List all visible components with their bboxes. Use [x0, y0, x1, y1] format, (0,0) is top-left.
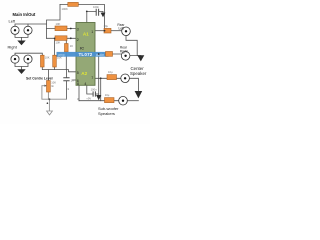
svg-text:100K: 100K [62, 7, 68, 11]
svg-text:3: 3 [77, 28, 79, 32]
wire V+ rail [87, 11, 103, 22]
svg-text:10µ: 10µ [105, 93, 110, 97]
svg-text:Main In/Out: Main In/Out [13, 12, 36, 17]
ground G4 rear jacks arrow [137, 55, 144, 61]
wire row1 to pin3 [28, 24, 76, 29]
svg-text:IC: IC [80, 46, 84, 51]
resistor R5 vertical left [41, 55, 45, 67]
wire row2 to pin2 [47, 37, 77, 39]
wire cap RL to jack [111, 30, 122, 32]
potentiometer wiper loop [42, 86, 67, 111]
wire left input top rail [15, 24, 47, 26]
junction dots [47, 11, 106, 104]
wire right pair ground [15, 63, 28, 69]
wire res4 stub [65, 38, 67, 69]
wire top feedback rail [60, 5, 105, 31]
ground G5 center-sub arrow [135, 91, 143, 98]
ground G1 left pair [17, 41, 25, 46]
svg-text:10µ: 10µ [108, 70, 113, 74]
resistor R2 10K row2 [55, 36, 67, 41]
potentiometer VR1 body [47, 81, 51, 93]
svg-text:10K: 10K [57, 56, 62, 60]
ground G3 top supply arrow [101, 13, 106, 18]
svg-text:100n: 100n [93, 5, 99, 9]
svg-text:Left: Left [119, 27, 125, 31]
capacitor C3 center [107, 75, 117, 80]
svg-text:Set Centre Level: Set Centre Level [26, 77, 53, 81]
capacitor C5 plates [63, 78, 69, 81]
svg-text:Speaker: Speaker [130, 71, 147, 76]
wire sub row [79, 100, 119, 102]
IC U1 TL072 body [76, 23, 95, 86]
svg-text:1: 1 [91, 30, 93, 34]
capacitor C supply bottom plates [93, 91, 95, 96]
wire right pair top [15, 53, 42, 55]
wire center jack ground [129, 78, 138, 91]
capacitor C supply top plates [96, 9, 98, 16]
svg-text:A2: A2 [81, 71, 87, 76]
wire long vertical to ground [98, 54, 100, 95]
wire pin6 stub [73, 79, 77, 81]
capacitor C2 rear right [106, 52, 113, 57]
wire pot top [47, 70, 49, 81]
pot wiper arrow [45, 85, 47, 87]
wire pin1 out [95, 30, 104, 32]
wire pin7 row [95, 77, 121, 79]
svg-text:+9V: +9V [86, 97, 91, 101]
svg-text:Right: Right [8, 45, 18, 50]
svg-text:2: 2 [77, 38, 79, 42]
svg-text:5: 5 [77, 71, 79, 75]
svg-text:ación: ación [96, 53, 104, 57]
svg-text:Speakers: Speakers [98, 111, 115, 116]
selection band [57, 52, 109, 57]
svg-text:8: 8 [77, 82, 79, 86]
svg-text:1K: 1K [70, 44, 73, 48]
junction dot pot bottom [48, 98, 50, 100]
svg-text:1n: 1n [71, 79, 74, 83]
capacitor C1 rear left [104, 28, 111, 33]
svg-text:7: 7 [91, 76, 93, 80]
ground G7 pot hollow [47, 111, 53, 115]
wire left pair ground [15, 34, 28, 40]
wire RR jack ground [130, 55, 141, 57]
wire pin8 down [78, 85, 80, 100]
svg-text:A1: A1 [83, 31, 89, 36]
capacitor C4 sub [105, 98, 115, 103]
wire RR row [99, 53, 122, 55]
svg-text:+9: +9 [66, 87, 70, 91]
svg-text:Left: Left [9, 19, 17, 24]
svg-text:10K: 10K [56, 40, 61, 44]
wire pin4 down [87, 85, 99, 94]
resistor R feedback 100K [68, 2, 79, 6]
wire bottom mix rail [42, 67, 66, 70]
wire res2 riser [54, 38, 56, 55]
wire cap5 branch [65, 70, 67, 100]
wire feedback step [47, 5, 61, 39]
svg-text:4: 4 [84, 82, 86, 86]
svg-text:10K: 10K [45, 56, 50, 60]
svg-text:TL072: TL072 [78, 52, 92, 57]
ground G2 right pair [17, 69, 25, 74]
wire rail to pin5 [66, 70, 76, 72]
wire sub jack ground [127, 100, 138, 102]
ground G6 bottom supply arrow [96, 95, 101, 100]
resistor R1 10K row1 [55, 26, 67, 31]
svg-text:10K: 10K [56, 22, 61, 26]
wire sub branch vertical [100, 78, 102, 100]
svg-text:Right: Right [120, 49, 128, 53]
jack input left A [11, 26, 130, 105]
svg-text:10µ: 10µ [104, 24, 109, 28]
wire RL jack ground [126, 36, 137, 56]
resistor R6 vertical right [53, 55, 57, 67]
svg-text:100n: 100n [91, 88, 97, 92]
resistor R4 vertical [65, 44, 69, 53]
svg-text:lin: lin [51, 84, 54, 88]
